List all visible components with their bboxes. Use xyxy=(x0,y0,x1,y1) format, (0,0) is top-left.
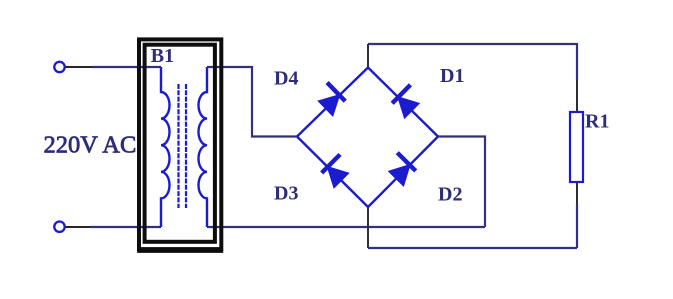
svg-text:B1: B1 xyxy=(151,45,174,67)
wire: negative bottom rail xyxy=(368,247,577,249)
wire: top-left terminal lead (black segment) xyxy=(66,66,93,68)
transformer B1 outer shield box xyxy=(139,39,221,249)
transformer B1 inner shield box xyxy=(145,45,215,242)
wire: bottom node stub (dark) xyxy=(367,207,369,248)
svg-text:D1: D1 xyxy=(440,65,464,87)
wire: bottom-left lead to primary winding (blue segment) xyxy=(90,226,161,228)
transformer box bottom thick edge xyxy=(137,250,223,253)
wire: top-left lead to primary winding (blue segment) xyxy=(92,66,161,68)
wire: secondary top to bridge left node xyxy=(207,67,297,137)
wire: bridge right node down-branch xyxy=(438,137,485,228)
resistor R1 xyxy=(570,112,583,182)
svg-text:220V AC: 220V AC xyxy=(44,132,137,159)
transformer core (dashed line left) xyxy=(177,84,179,208)
wire: secondary bottom rail to bridge right branch xyxy=(207,226,485,228)
wire: right rail lower dark segment from R1 xyxy=(576,182,578,204)
transformer primary winding (left coil) xyxy=(161,67,170,227)
terminal: AC input bottom xyxy=(54,222,64,232)
diode D2 (bottom node to right node) xyxy=(384,153,417,186)
wire: positive top rail xyxy=(368,43,577,45)
terminal: AC input top xyxy=(54,62,64,72)
wire: top node stub (dark) xyxy=(367,44,369,68)
wire: bridge edge bottom node to right node xyxy=(368,137,438,208)
diode D1 (right node to top node) xyxy=(391,85,424,118)
diode D4 (left node to top node) xyxy=(313,83,346,116)
transformer secondary winding (right coil) xyxy=(199,67,208,227)
wire: right rail upper dark segment into R1 xyxy=(576,80,578,112)
wire: bridge edge top node to right node xyxy=(368,68,438,137)
svg-text:R1: R1 xyxy=(585,111,609,133)
wire: right rail upper blue segment xyxy=(576,43,578,80)
svg-text:D4: D4 xyxy=(274,68,298,90)
wire: bottom-left terminal lead (black segment) xyxy=(66,226,91,228)
svg-text:D3: D3 xyxy=(274,183,298,205)
wire: bridge edge left node to top node xyxy=(297,68,368,137)
svg-text:D2: D2 xyxy=(438,184,462,206)
wire: bridge edge left node to bottom node xyxy=(297,137,368,208)
wire: right rail lower blue segment xyxy=(576,204,578,248)
diode D3 (bottom node to left node) xyxy=(321,154,354,187)
transformer core (dashed line right) xyxy=(185,84,187,208)
